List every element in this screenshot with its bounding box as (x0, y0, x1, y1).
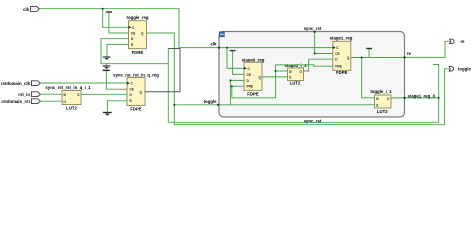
svg-text:rstdomain_rst: rstdomain_rst (1, 99, 30, 104)
wire stage0 PRE stub (232, 85, 244, 87)
module box sync_rst (hierarchical instance) (219, 32, 405, 118)
svg-text:I0: I0 (289, 70, 292, 74)
wire toggle_reg R feeder (107, 44, 129, 56)
LUT sync_rst_rst_in_q_i_1 (LUT2) (45, 85, 91, 110)
svg-text:sync_rst: sync_rst (304, 118, 322, 123)
junction stage0 D (229, 79, 231, 81)
wire clk branch to stage0 C (227, 48, 244, 69)
wire FDPE CE const (106, 71, 127, 89)
svg-text:stage1_reg_0: stage1_reg_0 (408, 93, 436, 98)
flip-flop toggle_reg (FDRE) (127, 15, 149, 55)
svg-text:I0: I0 (64, 93, 67, 97)
svg-text:LUT2: LUT2 (290, 81, 301, 86)
wire rst_in to LUT I0 (40, 93, 62, 95)
wire clk to toggle_reg C (103, 9, 129, 28)
wire stage1_i_1 O to stage1_reg D (304, 59, 333, 71)
svg-text:CE: CE (247, 73, 251, 77)
flip-flop sync_rst_rst_in_q_reg (FDPE) (113, 72, 159, 111)
svg-text:I1: I1 (64, 100, 67, 104)
svg-text:rst_in: rst_in (18, 92, 30, 97)
wire clk rail (39, 9, 332, 48)
wire toggle into box and to toggle_i_1 I1 (174, 104, 374, 106)
svg-text:LUT2: LUT2 (66, 105, 77, 110)
LUT toggle_i_1 (LUT2) inside box (370, 89, 392, 114)
svg-text:clk: clk (23, 7, 30, 12)
svg-text:stage0_reg: stage0_reg (242, 58, 265, 63)
wire toggle net from toggle_reg Q (147, 33, 450, 125)
gnd symbol under D feeder (105, 64, 107, 66)
vcc bar FDPE CE (103, 70, 110, 72)
wire stage1_reg PRE feed (276, 65, 333, 66)
wire stage1 CE const stub (368, 49, 370, 57)
junction internal riser I0 (275, 70, 277, 72)
LUT stage1_i_1 (LUT2) inside box (285, 63, 308, 86)
svg-text:PRE: PRE (247, 85, 254, 89)
wire rstdomain_rst to LUT I1 (40, 100, 62, 102)
wire FDPE R gnd (107, 101, 127, 112)
wire stage0 CE const (233, 51, 244, 74)
port rstdomain_clk (1, 81, 41, 86)
svg-text:sync_rst_rst_in_q_i_1: sync_rst_rst_in_q_i_1 (45, 85, 91, 90)
gnd symbol toggle_reg R (103, 56, 111, 57)
wire stage1_reg_0 from toggle_i_1 O (391, 97, 439, 99)
junction clk in box (226, 47, 228, 49)
svg-text:FDPE: FDPE (130, 107, 142, 112)
wire sync_rst bottom rail (168, 65, 438, 123)
svg-text:re: re (461, 39, 466, 44)
svg-text:I1: I1 (376, 104, 379, 108)
wire sync_rst top pin drop (315, 32, 333, 54)
svg-text:CE: CE (335, 52, 339, 56)
box pin toggle (217, 104, 219, 106)
expand icon (219, 32, 224, 37)
vcc bar stage1 CE (366, 48, 372, 49)
port rst_in (18, 92, 40, 97)
wire toggle_reg CE const (109, 13, 129, 33)
svg-text:stage1_i_1: stage1_i_1 (285, 63, 308, 68)
port rstdomain_rst (1, 99, 40, 104)
svg-text:stage1_reg: stage1_reg (330, 36, 353, 41)
svg-text:FDRE: FDRE (132, 50, 144, 55)
junction stage0 PRE (231, 85, 233, 87)
junction clk top (102, 8, 104, 10)
box pin clk (218, 47, 220, 49)
svg-text:clk: clk (211, 41, 218, 46)
junction sync_rst top drop (314, 53, 316, 55)
svg-text:rstdomain_clk: rstdomain_clk (1, 81, 31, 86)
port re (output) (450, 39, 466, 44)
flip-flop stage0_reg (FDPE) inside box (242, 58, 265, 97)
box pin sync_rst top (314, 31, 316, 33)
svg-text:sync_rst: sync_rst (304, 26, 322, 31)
wire to stage1_i_1 I0 (276, 70, 288, 72)
svg-text:sync_rst_rst_in_q_reg: sync_rst_rst_in_q_reg (113, 72, 159, 77)
svg-text:PRE: PRE (335, 65, 342, 69)
wire stage1 Q branch to toggle_i_1 I0 (362, 58, 375, 98)
port clk (23, 7, 39, 12)
box pin re (404, 56, 406, 58)
wire toggle_reg D feeder (101, 39, 168, 64)
junction stage1 Q (361, 57, 363, 59)
junction toggle at box pin (173, 104, 175, 106)
wire internal sync_rst riser (232, 65, 276, 98)
wire stage0 Q to stage1_i_1 I1 (262, 76, 288, 78)
svg-text:toggle_i_1: toggle_i_1 (370, 89, 392, 94)
svg-text:CE: CE (130, 87, 134, 91)
wire stage1 Q to re pin (351, 57, 405, 59)
wire stage0 D riser from toggle (230, 80, 244, 104)
svg-text:toggle_reg: toggle_reg (127, 15, 149, 20)
gnd symbol FDPE R (103, 112, 112, 113)
wire re from box pin to port (405, 41, 450, 57)
svg-text:FDPE: FDPE (247, 92, 259, 97)
vcc bar stage0 CE (230, 50, 236, 51)
wire sync_rst from FDPE Q (dark) (145, 49, 180, 92)
svg-text:toggle: toggle (458, 67, 471, 72)
junction stage1_reg_0 (438, 97, 440, 99)
svg-text:CE: CE (131, 32, 135, 36)
svg-text:re: re (407, 51, 412, 56)
svg-text:I1: I1 (289, 76, 292, 80)
wire LUT O to FDPE D (81, 93, 127, 95)
svg-text:LUT2: LUT2 (377, 109, 388, 114)
svg-text:toggle: toggle (204, 99, 217, 104)
svg-text:FDPE: FDPE (336, 70, 348, 75)
svg-text:I0: I0 (376, 97, 379, 101)
vcc bar toggle_reg CE (106, 11, 112, 12)
wire rstdomain_clk to FDPE C (40, 82, 127, 84)
flip-flop stage1_reg (FDPE) inside box (330, 36, 353, 75)
wire sync_rst vertical left (167, 49, 169, 123)
box pin stage1_reg_0 (404, 97, 406, 99)
port toggle (output) (449, 67, 471, 72)
